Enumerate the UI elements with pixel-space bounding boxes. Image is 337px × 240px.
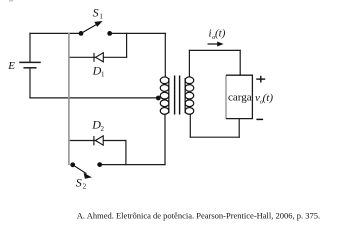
- svg-text:1: 1: [99, 12, 103, 20]
- svg-text:carga: carga: [228, 92, 252, 104]
- svg-text:2: 2: [83, 182, 87, 190]
- svg-text:1: 1: [101, 71, 105, 79]
- svg-text:A. Ahmed. Eletrônica de potênc: A. Ahmed. Eletrônica de potência. Pearso…: [77, 211, 320, 221]
- svg-text:(t): (t): [263, 92, 274, 104]
- svg-text:S: S: [93, 5, 99, 19]
- svg-text:E: E: [7, 60, 15, 72]
- svg-text:2: 2: [101, 125, 105, 133]
- svg-text:S: S: [76, 175, 82, 189]
- svg-text:(t): (t): [215, 27, 226, 39]
